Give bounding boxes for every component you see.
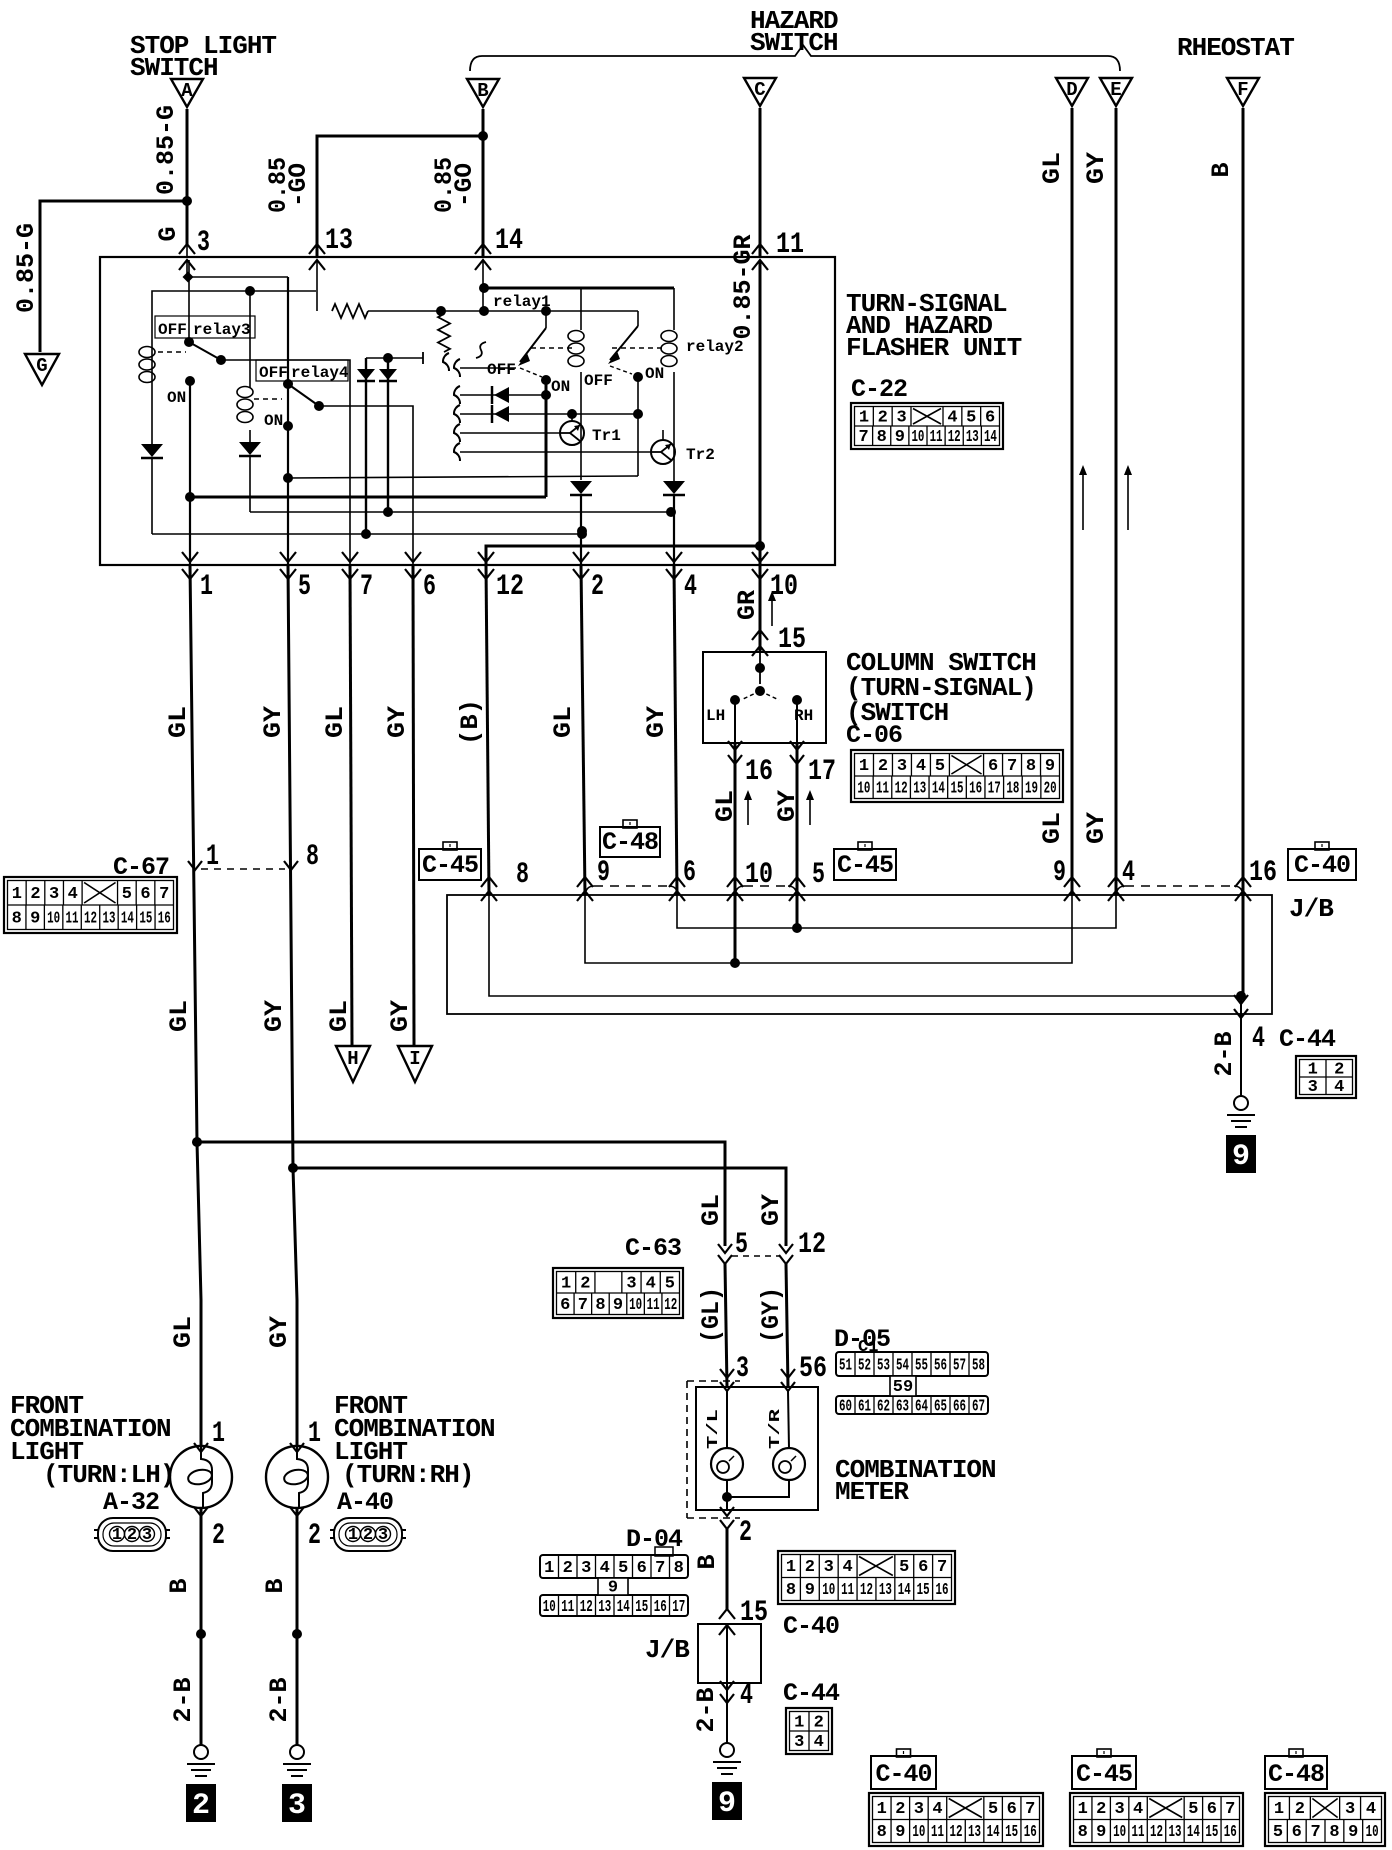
J/B GY bus (677, 895, 1116, 928)
flasher pin 7 exit chevrons (342, 552, 358, 562)
relay4 switch arm (283, 379, 293, 389)
relay4 coil diode (239, 442, 261, 455)
svg-text:6: 6 (1007, 1800, 1017, 1819)
flasher pin 5 exit chevrons (280, 552, 296, 562)
connector C-06 pinout (851, 750, 1063, 802)
svg-text:14: 14 (932, 779, 945, 798)
wire (GL) to meter (725, 1264, 727, 1387)
svg-text:3: 3 (1115, 1800, 1125, 1819)
svg-text:16: 16 (158, 909, 171, 928)
svg-text:GL: GL (169, 1316, 198, 1348)
svg-text:12: 12 (496, 570, 524, 604)
relay1 coil (580, 288, 582, 330)
pin 14 entry chevrons (475, 244, 491, 254)
svg-text:9: 9 (597, 856, 610, 890)
connector triangle A (stop light switch) (171, 79, 203, 107)
svg-text:I: I (409, 1048, 420, 1070)
column switch LH contact (730, 695, 740, 705)
diode on line x388 (379, 369, 397, 380)
svg-text:11: 11 (1132, 1823, 1145, 1842)
wire B down, junction to pins 13/14 (482, 109, 485, 257)
svg-text:8: 8 (516, 858, 529, 892)
wire D down to J/B, GL (1071, 108, 1074, 895)
svg-text:C-48: C-48 (1268, 1760, 1324, 1789)
svg-text:relay4: relay4 (291, 364, 349, 382)
D-04 dashed boundary (686, 1381, 688, 1518)
svg-text:C-44: C-44 (1279, 1025, 1336, 1054)
svg-text:1: 1 (561, 1274, 571, 1293)
power junction dot (283, 473, 293, 483)
wire B meter to J/B (726, 1529, 729, 1609)
svg-text:2: 2 (814, 1713, 824, 1732)
svg-text:4: 4 (843, 1558, 853, 1577)
svg-text:7: 7 (1310, 1823, 1320, 1842)
connector icon C-40 bottom (871, 1756, 936, 1789)
relay3 label box OFF relay3 (155, 316, 255, 338)
svg-text:ON: ON (264, 412, 283, 430)
ground arrow G (25, 354, 59, 385)
svg-text:6: 6 (683, 856, 696, 890)
svg-text:G: G (36, 355, 47, 377)
relay3 supply wire (152, 291, 316, 344)
J/B pin 9 entry (wire D) (1064, 877, 1080, 887)
svg-text:8: 8 (1026, 757, 1036, 776)
svg-text:1: 1 (1308, 1060, 1318, 1079)
svg-text:C-48: C-48 (602, 828, 658, 857)
svg-text:9: 9 (30, 909, 40, 928)
svg-text:2: 2 (580, 1274, 590, 1293)
svg-text:9: 9 (805, 1581, 815, 1600)
connector triangle B (hazard switch) (467, 79, 499, 107)
svg-text:10: 10 (745, 858, 773, 892)
relay2 ON contact wire (633, 372, 643, 382)
svg-text:8: 8 (1329, 1823, 1339, 1842)
wire pin2 GL down to J/B (581, 565, 585, 895)
wire pin4 GY down to J/B (674, 565, 677, 895)
svg-text:3: 3 (897, 757, 907, 776)
svg-text:3: 3 (1345, 1800, 1355, 1819)
connector C-48 pinout bottom (1265, 1793, 1385, 1846)
svg-text:4: 4 (600, 1559, 610, 1578)
pin 3 entry chevrons (179, 244, 195, 254)
svg-text:LH: LH (706, 707, 725, 725)
svg-text:(TURN:LH): (TURN:LH) (43, 1460, 174, 1490)
connector C-45 pinout bottom (1070, 1793, 1243, 1846)
wire branch to ground G, 0.85-G (40, 201, 187, 352)
svg-text:10: 10 (543, 1598, 556, 1617)
svg-text:3: 3 (49, 885, 59, 904)
C-67 dashed link (201, 868, 285, 870)
svg-text:2: 2 (878, 408, 888, 427)
svg-text:1: 1 (348, 1526, 358, 1545)
svg-text:14: 14 (617, 1598, 630, 1617)
svg-text:51: 51 (839, 1357, 852, 1376)
svg-text:8: 8 (595, 1296, 605, 1315)
svg-text:11: 11 (930, 428, 943, 447)
svg-text:2-B: 2-B (169, 1677, 198, 1722)
svg-text:9: 9 (895, 428, 905, 447)
svg-text:GL: GL (321, 706, 350, 738)
svg-text:12: 12 (798, 1228, 826, 1262)
pin 10 wire exit (759, 546, 762, 565)
LH bulb entry chevron (194, 1443, 208, 1452)
connector A-40 pinout oval (334, 1518, 402, 1551)
RH wire splice dot (292, 1629, 302, 1639)
svg-text:15: 15 (635, 1598, 648, 1617)
svg-text:GL: GL (549, 706, 578, 738)
svg-text:RHEOSTAT: RHEOSTAT (1177, 33, 1294, 63)
svg-text:8: 8 (877, 428, 887, 447)
connector C-22 pinout (851, 403, 1003, 449)
svg-text:2: 2 (805, 1558, 815, 1577)
svg-text:GY: GY (260, 1000, 289, 1032)
J/B dashed bracket 4-16 (1116, 886, 1125, 895)
svg-text:12: 12 (1150, 1823, 1163, 1842)
svg-text:A-32: A-32 (103, 1488, 159, 1517)
svg-text:C-44: C-44 (783, 1679, 840, 1708)
svg-text:13: 13 (913, 779, 926, 798)
svg-text:56: 56 (934, 1357, 947, 1376)
svg-text:GL: GL (165, 1000, 194, 1032)
svg-text:3: 3 (197, 226, 210, 260)
svg-text:0.85-G: 0.85-G (12, 223, 41, 313)
svg-text:A-40: A-40 (337, 1488, 393, 1517)
svg-text:12: 12 (84, 909, 97, 928)
svg-text:9: 9 (613, 1296, 623, 1315)
J/B pin 5 entry (789, 877, 805, 887)
svg-text:14: 14 (121, 909, 134, 928)
svg-text:14: 14 (495, 224, 523, 258)
svg-text:4: 4 (1334, 1078, 1344, 1097)
svg-text:Tr1: Tr1 (592, 427, 621, 445)
svg-text:9: 9 (1232, 1140, 1250, 1174)
svg-text:4: 4 (1252, 1022, 1265, 1056)
wire (GY) to meter (786, 1264, 788, 1387)
svg-text:6: 6 (988, 757, 998, 776)
relay1 mech dashed link (531, 347, 572, 349)
J/B GL bus (585, 895, 1072, 963)
svg-text:11: 11 (931, 1823, 944, 1842)
svg-text:FLASHER UNIT: FLASHER UNIT (846, 333, 1022, 363)
svg-text:GL: GL (164, 706, 193, 738)
svg-text:1: 1 (112, 1526, 122, 1545)
wire C down to flasher pin 11, 0.85-GR (759, 108, 762, 257)
connector C-44 pinout (meter) (786, 1708, 832, 1754)
svg-text:9: 9 (608, 1579, 618, 1598)
svg-text:11: 11 (876, 779, 889, 798)
svg-text:16: 16 (936, 1581, 949, 1600)
svg-text:7: 7 (1225, 1800, 1235, 1819)
svg-text:1: 1 (308, 1417, 321, 1451)
svg-text:GL: GL (697, 1194, 726, 1226)
svg-text:C-40: C-40 (783, 1612, 839, 1641)
column switch LH output wire 16 (734, 700, 736, 743)
connector A-32 pinout oval (98, 1518, 166, 1551)
vertical resistor (441, 311, 444, 315)
connector triangle D (hazard switch) (1056, 78, 1088, 106)
svg-text:13: 13 (966, 428, 979, 447)
relay4 mech dashed link (254, 398, 282, 400)
steering diode 2 horizontal (460, 413, 638, 415)
svg-text:16: 16 (745, 755, 773, 789)
svg-text:3: 3 (288, 1789, 306, 1823)
svg-text:2: 2 (363, 1526, 373, 1545)
svg-text:12: 12 (895, 779, 908, 798)
svg-text:GY: GY (757, 1194, 786, 1226)
connector D-05 pinout (836, 1352, 988, 1376)
svg-text:13: 13 (325, 224, 353, 258)
relay3 coil diode (151, 386, 153, 446)
svg-text:2-B: 2-B (265, 1677, 294, 1722)
pin 13 entry chevrons (309, 244, 325, 254)
svg-text:4: 4 (916, 757, 926, 776)
svg-text:4: 4 (646, 1274, 656, 1293)
svg-text:54: 54 (896, 1357, 909, 1376)
wire pin6 GY down to arrow I (413, 565, 414, 1046)
svg-text:C-45: C-45 (1076, 1760, 1132, 1789)
svg-text:B: B (165, 1578, 194, 1593)
svg-text:6: 6 (140, 885, 150, 904)
connector C-40 pinout (meter) (778, 1551, 955, 1604)
small connector icon C-45 right (834, 849, 896, 880)
diode on line x366 (357, 369, 375, 380)
svg-text:14: 14 (987, 1823, 1000, 1842)
relay4 coil (249, 291, 251, 388)
svg-text:14: 14 (984, 428, 997, 447)
svg-text:10: 10 (1366, 1823, 1379, 1842)
C-67 junction chevron wire5 (284, 861, 298, 870)
J/B pin 10 entry (727, 877, 743, 887)
RH bulb entry chevron (290, 1443, 304, 1452)
svg-text:7: 7 (159, 885, 169, 904)
relay3 coil (151, 344, 153, 386)
svg-text:6: 6 (1292, 1823, 1302, 1842)
svg-text:SWITCH: SWITCH (750, 28, 838, 58)
svg-text:6: 6 (560, 1296, 570, 1315)
LH wire splice dot (196, 1629, 206, 1639)
connector triangle C (hazard switch) (744, 78, 776, 106)
svg-text:E: E (1110, 79, 1121, 101)
relay1 OFF contact hook (454, 359, 460, 377)
svg-text:57: 57 (953, 1357, 966, 1376)
svg-text:1: 1 (200, 570, 213, 604)
svg-text:1: 1 (544, 1559, 554, 1578)
svg-text:5: 5 (988, 1800, 998, 1819)
ground symbol 9 (meter) (720, 1743, 734, 1757)
svg-text:9: 9 (718, 1787, 736, 1821)
pin 12 to pin 10/11 bus y546 (486, 546, 760, 565)
svg-text:ON: ON (551, 378, 570, 396)
power wire pin3 to pin5 line (188, 276, 288, 278)
svg-text:GL: GL (325, 1000, 354, 1032)
svg-text:C-06: C-06 (846, 721, 902, 750)
connector triangle E (hazard switch) (1100, 78, 1132, 106)
wire pin12 (B) down to J/B (486, 565, 489, 895)
svg-text:3: 3 (794, 1733, 804, 1752)
small contact squiggle (476, 342, 486, 358)
svg-text:63: 63 (896, 1398, 909, 1417)
svg-text:4: 4 (1366, 1800, 1376, 1819)
relay2 ON to power bus y477 (288, 476, 638, 478)
svg-text:16: 16 (654, 1598, 667, 1617)
svg-text:GY: GY (773, 790, 802, 822)
relay3 ON contact wire to pin 1 (185, 376, 195, 386)
svg-text:17: 17 (808, 755, 836, 789)
svg-text:8: 8 (1078, 1823, 1088, 1842)
svg-text:13: 13 (598, 1598, 611, 1617)
svg-text:11: 11 (647, 1296, 660, 1315)
small connector icon C-45 left (419, 849, 481, 880)
wire F down to J/B, B (1242, 108, 1245, 996)
meter exit chevrons (720, 1507, 734, 1516)
svg-text:6: 6 (637, 1559, 647, 1578)
ground symbol 3 (RH) (290, 1745, 304, 1759)
svg-text:1: 1 (794, 1713, 804, 1732)
svg-text:6: 6 (985, 408, 995, 427)
svg-text:C-40: C-40 (875, 1760, 931, 1789)
svg-text:5: 5 (935, 757, 945, 776)
J/B B bus (489, 895, 1241, 996)
svg-text:6: 6 (918, 1558, 928, 1577)
indicator bulb T/R (788, 1391, 789, 1448)
C-63 entry chevrons GY (779, 1244, 793, 1253)
svg-text:10: 10 (822, 1581, 835, 1600)
svg-text:J/B: J/B (1289, 894, 1334, 924)
svg-text:5: 5 (1273, 1823, 1283, 1842)
svg-text:J/B: J/B (645, 1635, 690, 1665)
svg-text:8: 8 (306, 840, 319, 874)
svg-text:C-40: C-40 (1294, 851, 1350, 880)
pin 14 wire junctions (482, 260, 484, 311)
svg-text:4: 4 (947, 408, 957, 427)
svg-text:B: B (693, 1554, 722, 1569)
svg-text:2: 2 (563, 1559, 573, 1578)
svg-text:5: 5 (899, 1558, 909, 1577)
wire through meter J/B (726, 1625, 728, 1683)
connector triangle F (rheostat) (1227, 78, 1259, 106)
relay2 coil diode (663, 481, 685, 494)
svg-text:9: 9 (1045, 757, 1055, 776)
svg-text:9: 9 (1348, 1823, 1358, 1842)
svg-text:18: 18 (1006, 779, 1019, 798)
wire E direction arrow (1127, 471, 1129, 530)
svg-text:2: 2 (591, 570, 604, 604)
column switch box (703, 652, 826, 743)
relay2 mech dashed link (612, 347, 664, 349)
svg-text:10: 10 (1113, 1823, 1126, 1842)
svg-text:4: 4 (1133, 1800, 1143, 1819)
GL branch junction (192, 1137, 202, 1147)
svg-text:GY: GY (1082, 812, 1111, 844)
svg-text:2: 2 (30, 885, 40, 904)
svg-text:OFF: OFF (158, 321, 187, 339)
column switch entry chevrons (752, 630, 768, 640)
small connector icon C-48 (600, 827, 660, 857)
svg-text:GY: GY (642, 706, 671, 738)
svg-text:13: 13 (879, 1581, 892, 1600)
column switch RH contact (792, 695, 802, 705)
svg-text:GL: GL (1038, 152, 1067, 184)
svg-text:3: 3 (896, 408, 906, 427)
wire pin7 GL down to arrow H (350, 565, 352, 1046)
relay4 OFF wire to pin 6 (319, 406, 413, 565)
relay3 mech dashed link (158, 351, 186, 353)
svg-text:2: 2 (878, 757, 888, 776)
svg-text:19: 19 (1025, 779, 1038, 798)
svg-text:-GO: -GO (284, 163, 313, 207)
svg-text:13: 13 (968, 1823, 981, 1842)
pin 11 wire inside unit (759, 260, 762, 546)
C-63 entry chevrons GL (718, 1244, 732, 1253)
svg-text:10: 10 (629, 1296, 642, 1315)
svg-text:5: 5 (735, 1228, 748, 1262)
svg-text:(B): (B) (456, 699, 485, 745)
GY branch wire to C-63 pin 12 (293, 1168, 786, 1246)
svg-text:7: 7 (360, 570, 373, 604)
svg-text:2: 2 (739, 1516, 752, 1550)
arrow H (336, 1046, 370, 1082)
svg-text:10: 10 (911, 428, 924, 447)
svg-text:5: 5 (618, 1559, 628, 1578)
svg-text:5: 5 (122, 885, 132, 904)
svg-text:66: 66 (953, 1398, 966, 1417)
svg-text:2-B: 2-B (692, 1687, 721, 1732)
svg-text:A: A (181, 80, 193, 102)
svg-text:8: 8 (674, 1559, 684, 1578)
svg-text:B: B (261, 1578, 290, 1593)
svg-text:12: 12 (580, 1598, 593, 1617)
svg-text:GY: GY (259, 706, 288, 738)
relay2 coil (673, 288, 675, 330)
connector C-63 pinout (553, 1268, 683, 1318)
svg-text:5: 5 (665, 1274, 675, 1293)
pin13 resistor feed (316, 260, 318, 311)
relay coil supply line (484, 287, 674, 290)
svg-text:1: 1 (1078, 1800, 1088, 1819)
svg-text:16: 16 (1249, 856, 1277, 890)
svg-text:0.85-G: 0.85-G (152, 105, 181, 195)
svg-text:15: 15 (951, 779, 964, 798)
flasher pin 12 exit chevrons (478, 552, 494, 562)
svg-text:3: 3 (626, 1274, 636, 1293)
svg-text:7: 7 (655, 1559, 665, 1578)
transistor Tr1 (460, 432, 560, 434)
pin 11 entry chevrons (752, 244, 768, 254)
svg-text:ON: ON (167, 389, 186, 407)
svg-text:GY: GY (1082, 152, 1111, 184)
svg-text:9: 9 (895, 1823, 905, 1842)
svg-text:52: 52 (858, 1357, 871, 1376)
svg-text:3: 3 (581, 1559, 591, 1578)
relay3 OFF wire to pin 7 (221, 360, 350, 565)
svg-text:2: 2 (1295, 1800, 1305, 1819)
wire pin1 GL down to LH light (190, 565, 201, 1446)
svg-text:1: 1 (786, 1558, 796, 1577)
connector D-04 pinout (655, 1547, 673, 1556)
svg-text:3: 3 (1308, 1078, 1318, 1097)
ground symbol 9 right (1234, 1096, 1248, 1110)
svg-text:1: 1 (12, 885, 22, 904)
J/B exit wire 2-B to ground 9 (1234, 995, 1248, 1004)
svg-text:13: 13 (1168, 1823, 1181, 1842)
svg-text:GL: GL (1038, 812, 1067, 844)
svg-text:2: 2 (308, 1519, 321, 1553)
svg-text:16: 16 (1224, 1823, 1237, 1842)
J/B pin 6 entry (669, 877, 685, 887)
indicator bulb T/L (726, 1391, 728, 1448)
wire B branch to pin 13, 0.85-GO (317, 136, 483, 257)
GY branch junction (288, 1163, 298, 1173)
